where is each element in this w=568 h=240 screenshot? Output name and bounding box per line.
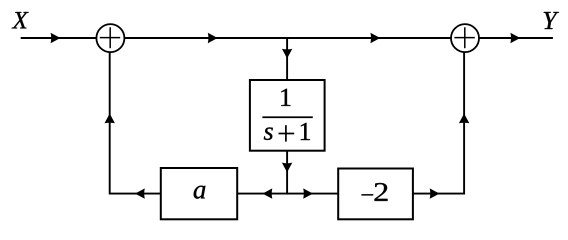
A1 value label a [194, 186, 206, 199]
arrowhead up into S2 (upward) [459, 114, 469, 124]
arrowhead on input wire (rightward) [51, 33, 61, 43]
arrowhead into A2 left side (rightward) [303, 188, 313, 198]
G1 label: denominator 1 [301, 123, 310, 140]
arrowhead out of A1 (leftward) [135, 188, 145, 198]
summing junction S2 (circle) [451, 24, 479, 52]
arrowhead into A1 right side (leftward) [263, 188, 273, 198]
block A2 gain -2 [338, 169, 413, 220]
wire node N2 to block A2 (rightward) [286, 193, 338, 195]
wire input X to summing junction S1 [21, 37, 97, 39]
wire S2 to output Y [479, 37, 553, 39]
block G1 transfer function 1/(s+1) [250, 80, 325, 151]
wire A1 output to corner C1 and up to S1 [110, 53, 161, 194]
G1 label: denominator s [264, 127, 273, 140]
label Y (output signal) [544, 12, 559, 29]
wire G1 bottom to node N2 [286, 151, 288, 195]
arrowhead on wire S1 to node N1 (rightward) [208, 33, 218, 43]
G1 label: fraction bar [262, 116, 312, 118]
arrowhead on output wire (rightward) [510, 33, 520, 43]
wire S1 to S2 along top rail [125, 37, 451, 39]
arrowhead out of A2 (rightward) [430, 188, 440, 198]
label X (input signal) [12, 12, 29, 28]
G1 label: numerator 1 [281, 89, 290, 106]
wire A2 output to corner C2 and up to S2 [413, 53, 464, 194]
arrowhead on wire node N1 to S2 (rightward) [370, 33, 380, 43]
wire node N2 to block A1 (leftward) [238, 193, 288, 195]
plus sign inside S1 [100, 37, 120, 39]
G1 label: denominator plus sign [279, 133, 295, 135]
arrowhead into G1 top (downward) [282, 49, 292, 59]
arrowhead below G1 (downward) [282, 163, 292, 173]
plus sign inside S2 [454, 37, 474, 39]
arrowhead up into S1 (upward) [105, 114, 115, 124]
block A1 gain a [161, 168, 237, 219]
node N1 tap: wire down into block G1 [286, 38, 288, 81]
summing junction S1 (circle) [96, 24, 124, 52]
A2 value label digit 2 [375, 183, 388, 201]
A2 value label minus sign [361, 194, 373, 196]
